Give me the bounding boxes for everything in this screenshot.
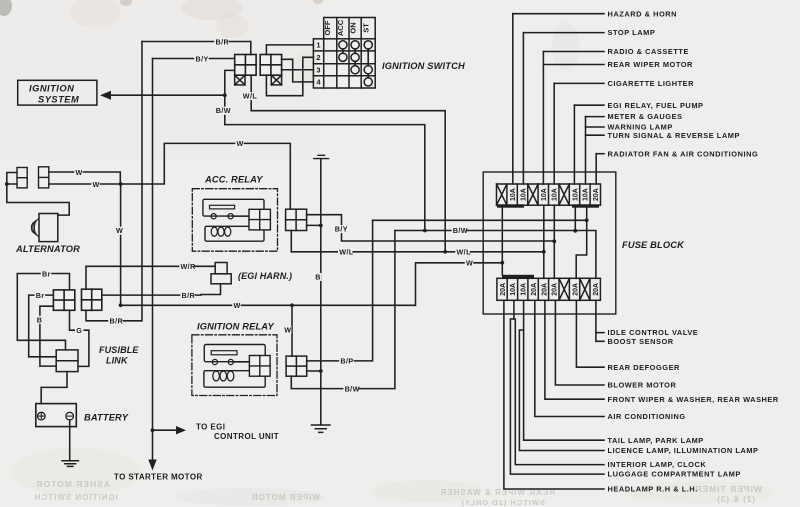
connector (ignition switch harness, left) (235, 55, 256, 76)
svg-text:RADIO & CASSETTE: RADIO & CASSETTE (608, 47, 689, 56)
wire B/Y to switch connector (153, 58, 235, 60)
svg-text:W/L: W/L (339, 247, 354, 256)
wire battery to ground (69, 420, 71, 461)
wire W/L from left connector down (251, 75, 445, 252)
wire G from connector to fusible link (70, 310, 89, 366)
EGI harness plug (215, 263, 227, 274)
svg-text:SYSTEM: SYSTEM (38, 95, 79, 105)
wire: switch row 1 (266, 45, 313, 55)
svg-text:20A: 20A (531, 283, 538, 296)
svg-text:IGNITION RELAY: IGNITION RELAY (197, 322, 274, 332)
svg-text:FUSIBLE: FUSIBLE (99, 345, 139, 355)
svg-text:RADIATOR FAN & AIR CONDITIONIN: RADIATOR FAN & AIR CONDITIONING (608, 149, 759, 158)
spare terminal X-box of left connector (235, 75, 245, 85)
label wire: egi relay, fuel pump (574, 104, 604, 106)
wire W main run (121, 263, 503, 306)
svg-text:3: 3 (316, 66, 320, 75)
wire: fuse1 to headlamp (504, 300, 604, 489)
svg-text:W/L: W/L (457, 248, 472, 257)
label wire: rear wiper motor (543, 64, 604, 66)
wire: fuse5 to front wiper (545, 300, 604, 399)
svg-text:10A: 10A (520, 188, 527, 201)
label wire: warning lamp (586, 126, 605, 128)
svg-text:W: W (234, 301, 241, 310)
svg-text:B/W: B/W (453, 226, 468, 235)
wire W drop to ignition relay connector (291, 305, 293, 356)
wire feed bus to fuse 9/10 bar (373, 219, 587, 221)
battery box (36, 404, 77, 427)
wire: fuse3 to tail lamp (524, 300, 604, 440)
svg-text:G: G (76, 326, 82, 335)
alternator brush arcs (31, 219, 38, 237)
svg-text:ASHER MOTOR: ASHER MOTOR (35, 479, 110, 489)
fuse block outline (483, 172, 616, 314)
svg-text:B: B (315, 273, 321, 282)
svg-text:STOP LAMP: STOP LAMP (608, 28, 656, 37)
svg-text:AIR CONDITIONING: AIR CONDITIONING (608, 412, 686, 421)
wire W vertical to main W run (120, 184, 122, 305)
svg-text:FRONT WIPER & WASHER, REAR WAS: FRONT WIPER & WASHER, REAR WASHER (608, 395, 779, 404)
svg-text:IGNITION: IGNITION (29, 84, 74, 94)
svg-text:LINK: LINK (106, 356, 129, 366)
ACC relay coil housing (205, 226, 264, 241)
svg-text:LICENCE LAMP, ILLUMINATION LAM: LICENCE LAMP, ILLUMINATION LAMP (608, 446, 759, 455)
svg-text:WIPER MOTOR: WIPER MOTOR (251, 493, 320, 502)
label wire: radio & cassette (543, 51, 604, 53)
ignition switch table (313, 18, 375, 89)
wire: fuse2 branch to interior lamp (514, 319, 604, 465)
svg-text:20A: 20A (552, 283, 559, 296)
svg-text:10A: 10A (552, 188, 559, 201)
bus bar under top fuses 1-3 (497, 204, 524, 207)
svg-text:IGNITION SWITCH: IGNITION SWITCH (34, 493, 118, 502)
svg-text:20A: 20A (572, 283, 579, 296)
svg-text:10A: 10A (510, 283, 517, 296)
bus bar over bottom fuses 1-4 (502, 275, 534, 279)
wire B from connector to fusible link (40, 306, 56, 366)
ground (center bottom) (312, 425, 331, 432)
svg-text:Br: Br (42, 269, 51, 278)
svg-text:SWITCH (2D ONLY): SWITCH (2D ONLY) (461, 498, 545, 507)
svg-text:B/W: B/W (345, 384, 360, 393)
wire: switch row 3 (282, 69, 314, 71)
wire down to fuse at x=523.4 (522, 33, 524, 184)
ignition relay terminal block (249, 356, 270, 377)
svg-text:20A: 20A (593, 283, 600, 296)
ignition switch contact circles (339, 41, 347, 49)
svg-text:2: 2 (316, 53, 320, 62)
svg-text:B: B (37, 315, 43, 324)
wire fusible link to battery (41, 372, 67, 404)
svg-text:TO STARTER MOTOR: TO STARTER MOTOR (114, 473, 203, 482)
svg-text:B/Y: B/Y (335, 225, 348, 234)
svg-text:BATTERY: BATTERY (84, 413, 129, 423)
wire down to fuse at x=574.4 (573, 105, 575, 184)
fuse row (bottom) (497, 278, 601, 300)
wire W/L from ACC connector (291, 231, 544, 252)
svg-text:TO EGI: TO EGI (196, 422, 225, 431)
svg-text:REAR DEFOGGER: REAR DEFOGGER (608, 363, 681, 372)
wire: fuse6 to blower motor (555, 300, 604, 385)
junction at ignition system feed (223, 93, 227, 97)
svg-text:10A: 10A (541, 188, 548, 201)
svg-text:W: W (237, 139, 244, 148)
wire: fuse3 branch to licence lamp (519, 330, 604, 451)
wire: switch row 4 (282, 59, 314, 82)
ACC relay external connector (286, 209, 307, 230)
wire ignition relay to ground stem (307, 370, 321, 372)
label wire: turn signal & reverse lamp (586, 134, 605, 136)
wire: fuse 6 vertical (553, 205, 555, 278)
svg-text:BLOWER MOTOR: BLOWER MOTOR (608, 381, 677, 390)
wire Br (upper) to fusible link (17, 274, 69, 350)
wire down to fuse at x=585.5 (585, 117, 587, 184)
fuse row (top) (497, 184, 601, 205)
svg-text:CIGARETTE LIGHTER: CIGARETTE LIGHTER (608, 79, 695, 88)
ACC relay contact bar (210, 205, 235, 209)
svg-text:20A: 20A (500, 283, 507, 296)
svg-text:W: W (93, 180, 100, 189)
wire: left connector to junction, to ignition system arrow (225, 70, 235, 124)
ignition relay coil housing (204, 371, 265, 388)
connector (ignition switch harness, right) (260, 55, 281, 76)
wire ground stem down (B net) (320, 159, 322, 425)
svg-text:W: W (76, 168, 83, 177)
battery + terminal (38, 412, 46, 420)
spare terminal X-box of right connector (271, 75, 281, 85)
wire W upper from connector (49, 172, 121, 184)
label wire: hazard & horn (513, 13, 604, 15)
wire down to fuse at x=554.2 (553, 83, 555, 184)
wire B/R from switch connector (top) (142, 42, 251, 55)
ACC relay coil loops (211, 227, 217, 236)
contact link bars (343, 49, 368, 78)
svg-text:ACC: ACC (336, 19, 345, 36)
ACC relay contact points (211, 214, 216, 219)
svg-text:ON: ON (348, 22, 357, 33)
label wire: meter & gauges (586, 116, 605, 118)
ACC relay dashed enclosure (192, 189, 277, 252)
ignition relay contact housing (204, 345, 265, 362)
wire: fuse10 to idle control valve / boost sensor (596, 300, 604, 341)
wire B/Y long vertical to starter motor (152, 59, 154, 461)
svg-text:B/P: B/P (340, 357, 353, 366)
battery - terminal (66, 412, 74, 420)
svg-text:METER & GAUGES: METER & GAUGES (608, 112, 683, 121)
svg-text:HAZARD & HORN: HAZARD & HORN (608, 9, 678, 18)
ignition relay external connector (286, 356, 307, 376)
wire: fuse2 to luggage lamp (510, 300, 604, 474)
ground (battery) (62, 461, 78, 467)
wire B/R to EGI harness (102, 294, 201, 296)
svg-text:20A: 20A (593, 188, 600, 201)
svg-text:FUSE BLOCK: FUSE BLOCK (622, 240, 685, 250)
junction B/Y at fuse 6 (552, 239, 556, 243)
wire down to fuse at x=512.8 (512, 14, 514, 184)
wire W/R from connector up to EGI harness (86, 266, 215, 289)
svg-text:B/W: B/W (216, 106, 231, 115)
svg-text:B/R: B/R (216, 38, 230, 47)
svg-text:INTERIOR LAMP, CLOCK: INTERIOR LAMP, CLOCK (608, 460, 707, 469)
ignition system box (18, 80, 97, 105)
wire B/P from ignition relay (307, 220, 373, 361)
label wire: radiator fan & air conditioning (596, 153, 604, 155)
wire W lower from connector (49, 143, 290, 209)
wire B/W bus (395, 231, 596, 279)
svg-text:(EGI HARN.): (EGI HARN.) (238, 271, 292, 281)
wire B/R long vertical to fusible link connector (86, 42, 142, 321)
fusible link connector (left 2x2) (53, 290, 74, 310)
svg-text:TAIL LAMP, PARK LAMP: TAIL LAMP, PARK LAMP (608, 436, 704, 445)
wire B/Y from ACC connector to fuse block (307, 215, 555, 241)
wire ACC connector to ground stem (307, 224, 321, 226)
ACC relay contact housing (203, 199, 264, 216)
fusible link connector (right 2x2) (82, 289, 102, 310)
ignition relay dashed enclosure (192, 335, 277, 396)
svg-text:B/R: B/R (110, 316, 124, 325)
svg-text:TURN SIGNAL & REVERSE LAMP: TURN SIGNAL & REVERSE LAMP (608, 131, 740, 140)
wire: right bar feed and jog to bottom fuse 8 (576, 208, 587, 279)
svg-text:W: W (466, 259, 473, 268)
label wire: cigarette lighter (554, 82, 604, 84)
svg-text:B/R: B/R (182, 291, 196, 300)
arrow to ignition system (100, 91, 111, 100)
svg-text:REAR WIPER MOTOR: REAR WIPER MOTOR (608, 60, 694, 69)
svg-text:(2) & (3): (2) & (3) (716, 495, 755, 504)
wire down to fuse at x=543.4 (542, 52, 544, 185)
svg-text:ALTERNATOR: ALTERNATOR (15, 244, 80, 254)
small ground above ACC connector (314, 155, 329, 158)
svg-text:IDLE CONTROL VALVE: IDLE CONTROL VALVE (608, 328, 699, 337)
connector pair near alternator (right 1x2) (39, 167, 49, 188)
svg-text:W: W (116, 226, 123, 235)
wire B/W from ignition relay (291, 231, 395, 389)
ignition relay coil loops (213, 371, 220, 381)
wire: switch row 2 (266, 57, 313, 95)
svg-text:CONTROL UNIT: CONTROL UNIT (214, 432, 279, 441)
svg-text:OFF: OFF (323, 20, 332, 35)
wire from small connector to alternator (7, 173, 69, 216)
ghost bleed-through text (decorative) (34, 479, 762, 507)
svg-text:BOOST SENSOR: BOOST SENSOR (608, 337, 674, 346)
svg-text:10A: 10A (583, 188, 590, 201)
svg-text:10A: 10A (572, 188, 579, 201)
wire down to fuse at x=596.2 (595, 154, 597, 184)
svg-text:W/L: W/L (243, 92, 258, 101)
wire B/W lower run (225, 125, 425, 231)
svg-text:10A: 10A (510, 188, 517, 201)
alternator body (39, 214, 58, 242)
svg-text:W: W (284, 325, 291, 334)
junction of W wires (119, 182, 123, 186)
svg-text:20A: 20A (541, 283, 548, 296)
svg-text:B/Y: B/Y (196, 54, 209, 63)
wire: right bar to B/W bus (574, 208, 576, 231)
ignition relay contact bar (211, 351, 237, 355)
svg-text:10A: 10A (521, 283, 528, 296)
ACC relay terminal block (249, 209, 270, 230)
svg-text:ST: ST (361, 23, 370, 33)
svg-text:1: 1 (316, 41, 320, 50)
svg-text:ACC. RELAY: ACC. RELAY (204, 175, 263, 185)
wire Br (lower) (29, 295, 57, 357)
wire: fuse 5 vertical (543, 205, 545, 278)
junction W at main run (119, 303, 123, 307)
wire: fuse4 to air conditioning (535, 300, 604, 416)
label wire: stop lamp (523, 32, 604, 34)
svg-text:EGI RELAY, FUEL PUMP: EGI RELAY, FUEL PUMP (608, 101, 704, 110)
junction W/L (443, 250, 447, 254)
bus bar under top fuses 8-10 (572, 204, 599, 207)
connector pair near alternator (left 1x2) (17, 168, 27, 188)
fusible link box (56, 350, 78, 372)
wire: left bar to bottom bar (W feed) (501, 208, 503, 275)
wire: fuse8 to rear defogger (576, 300, 604, 367)
svg-text:LUGGAGE COMPARTMENT LAMP: LUGGAGE COMPARTMENT LAMP (608, 470, 741, 479)
svg-text:IGNITION SWITCH: IGNITION SWITCH (382, 61, 465, 71)
svg-text:HEADLAMP R.H & L.H.: HEADLAMP R.H & L.H. (608, 485, 698, 494)
junction to EGI control unit (151, 428, 155, 432)
ignition relay contact points (212, 359, 217, 364)
svg-text:W/R: W/R (181, 262, 197, 271)
svg-text:WIPER TIMER: WIPER TIMER (694, 484, 762, 494)
svg-text:Br: Br (36, 291, 45, 300)
arrow to starter motor (148, 460, 156, 471)
